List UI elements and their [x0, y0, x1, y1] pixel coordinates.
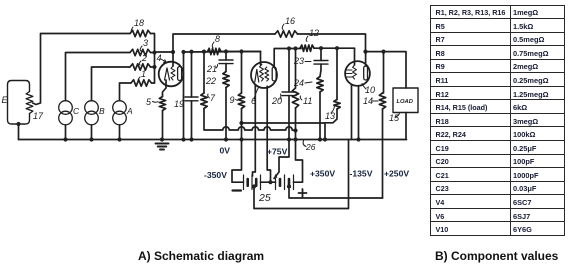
wire C21 top [225, 52, 227, 61]
resistor R22 [223, 72, 229, 88]
wire R14 bottom to +250V line [382, 109, 384, 198]
wire load to rail [405, 113, 407, 140]
wire cathode bias bus [242, 122, 326, 124]
wire R9 top [241, 52, 243, 94]
wire C19 bottom [191, 101, 193, 140]
node R5 rail [160, 137, 164, 141]
wire R24 to rail [319, 92, 321, 140]
wire R18 right [151, 34, 155, 53]
node C21 bus [224, 49, 228, 53]
wire C20 bottom [288, 96, 290, 140]
node plate rail [181, 137, 185, 141]
svg-text:LOAD: LOAD [397, 99, 414, 105]
wire C23 to R24 [320, 64, 321, 76]
capacitor C19 [185, 97, 198, 101]
tube V4 grid wire [172, 52, 174, 66]
wire R13 top [336, 48, 338, 99]
tube V10 beam plates [347, 70, 353, 77]
wire R2 right [151, 66, 155, 68]
wire R14 top [383, 52, 384, 93]
node +250V tap [287, 184, 291, 188]
wire R5 to rail [162, 111, 164, 140]
wire battery right terminal [294, 131, 303, 183]
tube V4 envelope [159, 62, 184, 87]
tube V10 plate [364, 66, 368, 80]
wire bus A mid [221, 51, 261, 53]
wire R11 bottom [295, 108, 297, 131]
tube V4 plate [178, 67, 182, 81]
wire bus A to V6 grid [261, 52, 262, 65]
wire C to bottom rail [65, 125, 67, 140]
node R9 rail [239, 137, 243, 141]
svg-text:16: 16 [285, 16, 295, 26]
wire output to load [366, 52, 407, 88]
svg-text:12: 12 [309, 28, 319, 38]
node output [363, 50, 367, 54]
battery 25 right cells [276, 175, 294, 190]
svg-text:5: 5 [146, 97, 152, 107]
load box 15 [393, 88, 418, 113]
wire B to bottom rail [91, 125, 93, 140]
svg-text:B: B [99, 106, 105, 116]
wire V4 cathode [163, 80, 167, 97]
resistor R3 [130, 49, 151, 55]
battery 25 left cells [244, 175, 261, 190]
resistor R13 [334, 100, 340, 110]
label plus [299, 189, 307, 197]
wire C21 to R22 [225, 64, 227, 72]
svg-text:7: 7 [210, 93, 216, 103]
svg-text:3: 3 [143, 38, 148, 48]
resistor R9 [238, 93, 244, 109]
voltage source E (loop) [8, 81, 30, 125]
ground [156, 144, 169, 150]
tube V4 filament [165, 68, 170, 80]
svg-text:A: A [126, 106, 133, 116]
svg-text:19: 19 [174, 99, 184, 109]
wire V10 plate riser [365, 52, 367, 66]
svg-text:E: E [2, 95, 9, 105]
wire grid bus vertical [154, 53, 156, 84]
node R24 rail [318, 137, 322, 141]
wire +250V tap [289, 186, 383, 198]
wire -350V bus with hops [204, 109, 296, 131]
node C23 bus [319, 46, 323, 50]
resistor R5 [159, 97, 165, 111]
tube V6 grid [260, 65, 264, 82]
caption B [435, 249, 558, 263]
node V10 cathode rail [356, 137, 360, 141]
wire feedback line to R16 [173, 34, 275, 52]
wire R1 right [152, 82, 155, 84]
wire B up to input resistor [92, 67, 131, 101]
node C19 bus [189, 50, 193, 54]
resistor R8 [208, 48, 222, 54]
resistor R12 [300, 45, 314, 51]
label minus [233, 189, 242, 191]
svg-text:-135V: -135V [350, 169, 373, 179]
wire R3 right [151, 52, 155, 54]
svg-text:-350V: -350V [204, 170, 227, 180]
wire A up to input resistor [120, 83, 132, 101]
wire V6 cathode right [267, 86, 270, 181]
tube V6 envelope [251, 62, 277, 88]
wire V10 cathode left [351, 85, 353, 140]
wire E to ground rail [18, 124, 20, 140]
svg-text:15: 15 [389, 113, 400, 123]
svg-text:+250V: +250V [384, 169, 409, 179]
svg-text:25: 25 [258, 192, 271, 204]
caption A [138, 249, 264, 263]
node A rail [117, 137, 121, 141]
wire C20 top [288, 49, 290, 93]
wire V6 cathode left [253, 85, 256, 177]
resistor R24 [317, 77, 323, 93]
wire bias bus to rail [324, 123, 326, 140]
svg-text:18: 18 [134, 18, 144, 28]
svg-text:+350V: +350V [310, 169, 335, 179]
wire R13 bottom jog [325, 109, 337, 123]
node R7 bus [202, 50, 206, 54]
svg-text:10: 10 [365, 85, 375, 95]
svg-text:0V: 0V [220, 146, 231, 156]
svg-text:C: C [73, 106, 80, 116]
node -350V bus end [293, 128, 297, 132]
capacitor C23 [314, 61, 328, 65]
wire bus B right [314, 47, 355, 49]
wire +75V feed with arrow [274, 140, 289, 179]
component values table [430, 5, 565, 236]
wire C19 top [191, 52, 193, 97]
resistor R1 [131, 80, 152, 86]
tube V10 grid [353, 65, 357, 79]
resistor R7 [201, 93, 207, 109]
wire battery mid [261, 181, 276, 183]
tube V6 plate [272, 67, 276, 81]
resistor R17 [26, 92, 33, 114]
resistor R11 [292, 88, 298, 108]
wire R22 to rail [225, 88, 227, 140]
node battery mid [268, 180, 272, 184]
svg-text:17: 17 [33, 111, 44, 121]
node B rail [89, 137, 93, 141]
svg-text:26: 26 [305, 142, 316, 152]
wire C23 top [320, 48, 322, 60]
node R11 bus [293, 46, 297, 50]
node plate top [181, 50, 185, 54]
node C20 rail [287, 137, 291, 141]
wire V6 plate riser [274, 49, 301, 68]
svg-text:13: 13 [325, 111, 335, 121]
node battery -135 tap [252, 184, 256, 188]
tube V10 envelope [345, 61, 370, 86]
generator C (symbol) [59, 101, 73, 125]
wire bottom rail 0V [19, 139, 407, 141]
wire R9 to rail to battery [232, 109, 244, 183]
svg-text:+75V: +75V [267, 147, 288, 157]
wire R16 to output [298, 34, 366, 52]
generator A (symbol) [113, 101, 127, 125]
node grid R3 [152, 50, 156, 54]
generator B (symbol) [85, 101, 99, 125]
resistor R18 (feedback) [130, 30, 151, 36]
wire V10 cathode right [358, 86, 360, 140]
node R9 bus [239, 49, 243, 53]
node R14 top [381, 50, 385, 54]
wire V4 plate bus [183, 52, 185, 140]
svg-text:8: 8 [215, 34, 220, 44]
node bias rail [323, 137, 327, 141]
capacitor C21 [219, 60, 233, 64]
capacitor C20 [282, 92, 296, 96]
node grid V4 [171, 50, 175, 54]
wire E output tap [33, 34, 130, 105]
node R22 rail [224, 137, 228, 141]
wire -135V line [254, 140, 349, 209]
tube V4 grid [171, 66, 175, 80]
resistor R14 [379, 93, 385, 109]
node grid R2 [152, 65, 156, 69]
node C rail [63, 137, 67, 141]
wire bus B to V10 grid [354, 48, 356, 65]
svg-text:1: 1 [141, 69, 146, 79]
node C20 bus [287, 46, 291, 50]
node C19 rail [189, 137, 193, 141]
svg-text:11: 11 [303, 96, 312, 106]
wire A to bottom rail [119, 125, 121, 140]
svg-text:4: 4 [157, 53, 162, 63]
wire bus A [184, 51, 261, 54]
svg-text:23: 23 [293, 56, 304, 66]
wire R11 top [295, 49, 297, 89]
svg-text:2: 2 [141, 53, 147, 63]
svg-text:24: 24 [293, 78, 304, 88]
node E loop bottom [16, 122, 20, 126]
wire C up to input resistor [66, 53, 131, 101]
wire R7 top [203, 52, 205, 93]
resistor R2 [130, 64, 151, 70]
node -350V bus rail crossing [293, 137, 297, 141]
resistor R16 [275, 31, 298, 37]
tube V6 filament [255, 70, 259, 83]
tube V6 screen grid [265, 67, 269, 81]
wire grid link [155, 51, 174, 53]
svg-text:21: 21 [206, 64, 217, 74]
svg-text:9: 9 [230, 95, 235, 105]
node R13 bus [335, 46, 339, 50]
node bias bus left [239, 121, 243, 125]
svg-text:22: 22 [205, 76, 216, 86]
